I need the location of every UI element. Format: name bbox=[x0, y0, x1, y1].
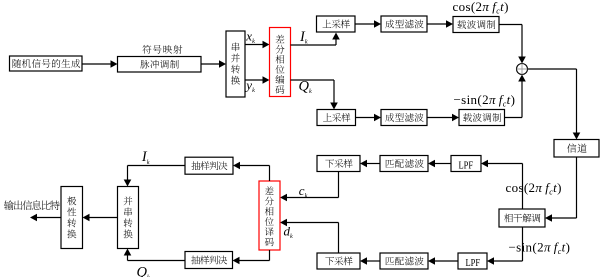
block: 差分相位编码 (differential phase encoder, red) bbox=[270, 28, 291, 97]
block: 相干解调 (coherent demodulator) bbox=[499, 209, 545, 227]
block: 匹配滤波 lower (matched filter Q) bbox=[380, 253, 428, 269]
svg-text:Qk: Qk bbox=[137, 265, 150, 277]
block: 信道 (channel) bbox=[554, 140, 599, 158]
wire: shaping filter Q to carrier modulator Q bbox=[427, 114, 459, 122]
svg-text:LPF: LPF bbox=[459, 159, 474, 171]
wire: I_k to upper upsampler bbox=[291, 33, 340, 46]
wire: sampling decision Q to parallel-serial converter bbox=[124, 249, 185, 261]
wire: demodulator to LPF Q bbox=[487, 227, 523, 265]
wire: parallel-serial converter to polarity converter bbox=[83, 214, 118, 222]
wire: c_k downsampler I to differential phase decoder bbox=[280, 172, 339, 202]
block: 载波调制 upper (carrier modulator I) bbox=[453, 17, 499, 33]
block: LPF upper bbox=[451, 156, 481, 172]
svg-text:cos(2π fct): cos(2π fct) bbox=[453, 0, 509, 16]
wire: polarity converter to output bbox=[30, 214, 61, 222]
wire: matched filter I to downsampler I bbox=[360, 160, 380, 168]
svg-text:−sin(2π fct): −sin(2π fct) bbox=[509, 240, 571, 257]
block: 抽样判决 upper (sampling decision I) bbox=[185, 157, 233, 174]
wire: upsampler I to shaping filter I bbox=[355, 20, 381, 28]
svg-text:Ik: Ik bbox=[299, 29, 308, 46]
block: 抽样判决 lower (sampling decision Q) bbox=[185, 252, 233, 269]
block: 匹配滤波 upper (matched filter I) bbox=[380, 156, 428, 172]
wire: upsampler Q to shaping filter Q bbox=[356, 114, 382, 122]
wire: sampling decision I to parallel-serial converter bbox=[124, 166, 185, 187]
wire: channel to coherent demodulator bbox=[545, 157, 577, 222]
wire: LPF Q to matched filter Q bbox=[428, 257, 458, 265]
label: 输出信息比特 (output information bits) bbox=[4, 200, 60, 210]
adder (summing junction) bbox=[517, 64, 528, 75]
block: 下采样 lower (downsampler Q) bbox=[317, 253, 360, 269]
svg-text:xk: xk bbox=[245, 29, 255, 46]
block: 随机信号的生成 (random signal generation) bbox=[10, 56, 83, 71]
svg-text:dk: dk bbox=[284, 224, 294, 240]
label: 符号映射 (symbol mapping) bbox=[142, 45, 182, 54]
wire: carrier modulator Q to adder bbox=[505, 75, 526, 118]
block: 极性转换 (polarity converter) bbox=[61, 187, 83, 249]
wire: d_k downsampler Q to differential phase decoder bbox=[280, 219, 339, 253]
wire: carrier modulator I to adder bbox=[499, 25, 526, 64]
wire: y_k from S/P to differential phase encoder bbox=[245, 76, 270, 84]
wire: shaping filter I to carrier modulator I bbox=[427, 20, 453, 28]
wire: decoder to sampling decision I bbox=[233, 162, 270, 181]
block: 成型滤波 lower (shaping filter Q) bbox=[381, 110, 427, 126]
wire: adder to channel bbox=[528, 69, 581, 140]
wire: demodulator to LPF I bbox=[481, 160, 523, 209]
block: 并串转换 (parallel to serial) bbox=[118, 187, 139, 249]
block: 串并转换 (serial to parallel) bbox=[226, 31, 245, 97]
svg-text:Ik: Ik bbox=[141, 149, 150, 166]
svg-text:LPF: LPF bbox=[466, 257, 481, 269]
svg-text:Qk: Qk bbox=[299, 78, 312, 95]
block: 上采样 upper (upsampler I) bbox=[317, 16, 356, 32]
block: LPF lower bbox=[458, 253, 487, 269]
wire: LPF I to matched filter I bbox=[428, 160, 451, 168]
block: 载波调制 lower (carrier modulator Q) bbox=[459, 110, 505, 126]
block: 成型滤波 upper (shaping filter I) bbox=[381, 16, 427, 32]
svg-text:cos(2π fct): cos(2π fct) bbox=[506, 180, 562, 197]
wire: decoder to sampling decision Q bbox=[233, 250, 270, 264]
block: 差分相位译码 (differential phase decoder, red) bbox=[259, 181, 280, 250]
wire: Q_k to lower upsampler bbox=[291, 80, 338, 110]
wire: matched filter Q to downsampler Q bbox=[360, 257, 380, 265]
block: 脉冲调制 (pulse modulation) bbox=[118, 57, 202, 73]
wire: x_k from S/P to differential phase encoder bbox=[245, 41, 270, 49]
block: 下采样 upper (downsampler I) bbox=[317, 156, 360, 172]
svg-text:−sin(2π fct): −sin(2π fct) bbox=[454, 92, 516, 109]
svg-text:ck: ck bbox=[299, 183, 308, 199]
wire: pulse modulator to serial-parallel converter bbox=[201, 60, 226, 68]
wire: generator to pulse modulator bbox=[82, 60, 118, 68]
block: 上采样 lower (upsampler Q) bbox=[317, 110, 356, 126]
